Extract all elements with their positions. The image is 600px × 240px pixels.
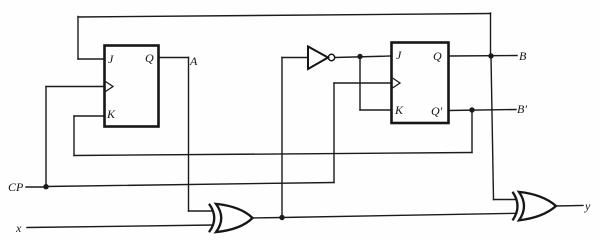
wire into XOR2 top input	[494, 199, 517, 201]
XOR gate G2	[513, 192, 557, 221]
svg-text:y: y	[584, 199, 591, 213]
wire CP stub	[26, 186, 46, 188]
wire B' long horizontal to left	[74, 153, 472, 156]
wire Q2 output to B	[449, 55, 517, 58]
wire A vertical down	[188, 58, 190, 212]
wire into XOR1 top input	[189, 210, 213, 212]
wire inverter output to J of FF2	[335, 56, 391, 58]
junction XOR1 output	[279, 215, 284, 220]
wire XOR2 output to y	[556, 205, 583, 208]
svg-text:J: J	[396, 48, 402, 62]
FF1 clock chevron	[106, 82, 114, 92]
wire vertical up to clock FF2	[333, 83, 335, 183]
svg-text:Q′: Q′	[431, 104, 443, 118]
wire left vertical down to J input	[77, 17, 79, 60]
inverter bubble	[328, 54, 334, 60]
wire B vertical down to XOR2	[491, 56, 494, 200]
wire x input	[27, 225, 213, 228]
JK flip-flop FF2 box	[392, 43, 449, 124]
FF2 clock chevron	[393, 78, 401, 88]
wire clock input FF1	[46, 86, 104, 88]
svg-text:Q: Q	[433, 49, 442, 63]
wire CP vertical to clock FF1	[45, 87, 47, 188]
svg-text:x: x	[15, 221, 22, 235]
wire junction down from J to K of FF2	[359, 57, 361, 111]
svg-text:K: K	[394, 103, 404, 117]
wire K input FF2	[360, 109, 391, 111]
wire B vertical up to top feedback	[490, 13, 492, 56]
wire XOR1 output long to XOR2 bottom input	[282, 213, 517, 217]
wire XOR1 output to junction	[253, 217, 283, 220]
wire CP long horizontal	[46, 183, 334, 187]
wire B' vertical down	[471, 110, 473, 153]
wire inverter input	[282, 57, 308, 59]
wire junction vertical up to inverter	[281, 58, 283, 218]
wire Q'2 output to B'	[449, 110, 516, 111]
wire top feedback B to J of FF1	[78, 14, 491, 18]
svg-text:B: B	[519, 49, 527, 63]
junction node B	[488, 53, 493, 58]
svg-text:K: K	[106, 107, 116, 121]
wire K input FF1	[74, 115, 104, 117]
junction CP	[43, 184, 48, 189]
wire clock input FF2	[334, 82, 391, 84]
JK flip-flop FF1 box	[105, 46, 159, 127]
wire J input FF1	[78, 58, 104, 60]
svg-text:Q: Q	[145, 51, 154, 65]
svg-text:CP: CP	[8, 180, 24, 194]
svg-text:A: A	[189, 54, 198, 68]
junction node B'	[469, 107, 474, 112]
svg-text:J: J	[108, 52, 114, 66]
wire vertical up to K1	[73, 116, 75, 156]
junction inverter output node	[357, 54, 362, 59]
XOR gate G1	[209, 204, 253, 232]
svg-text:B′: B′	[517, 102, 527, 116]
wire Q1 output to A bend	[159, 57, 189, 59]
inverter gate triangle	[308, 47, 328, 70]
